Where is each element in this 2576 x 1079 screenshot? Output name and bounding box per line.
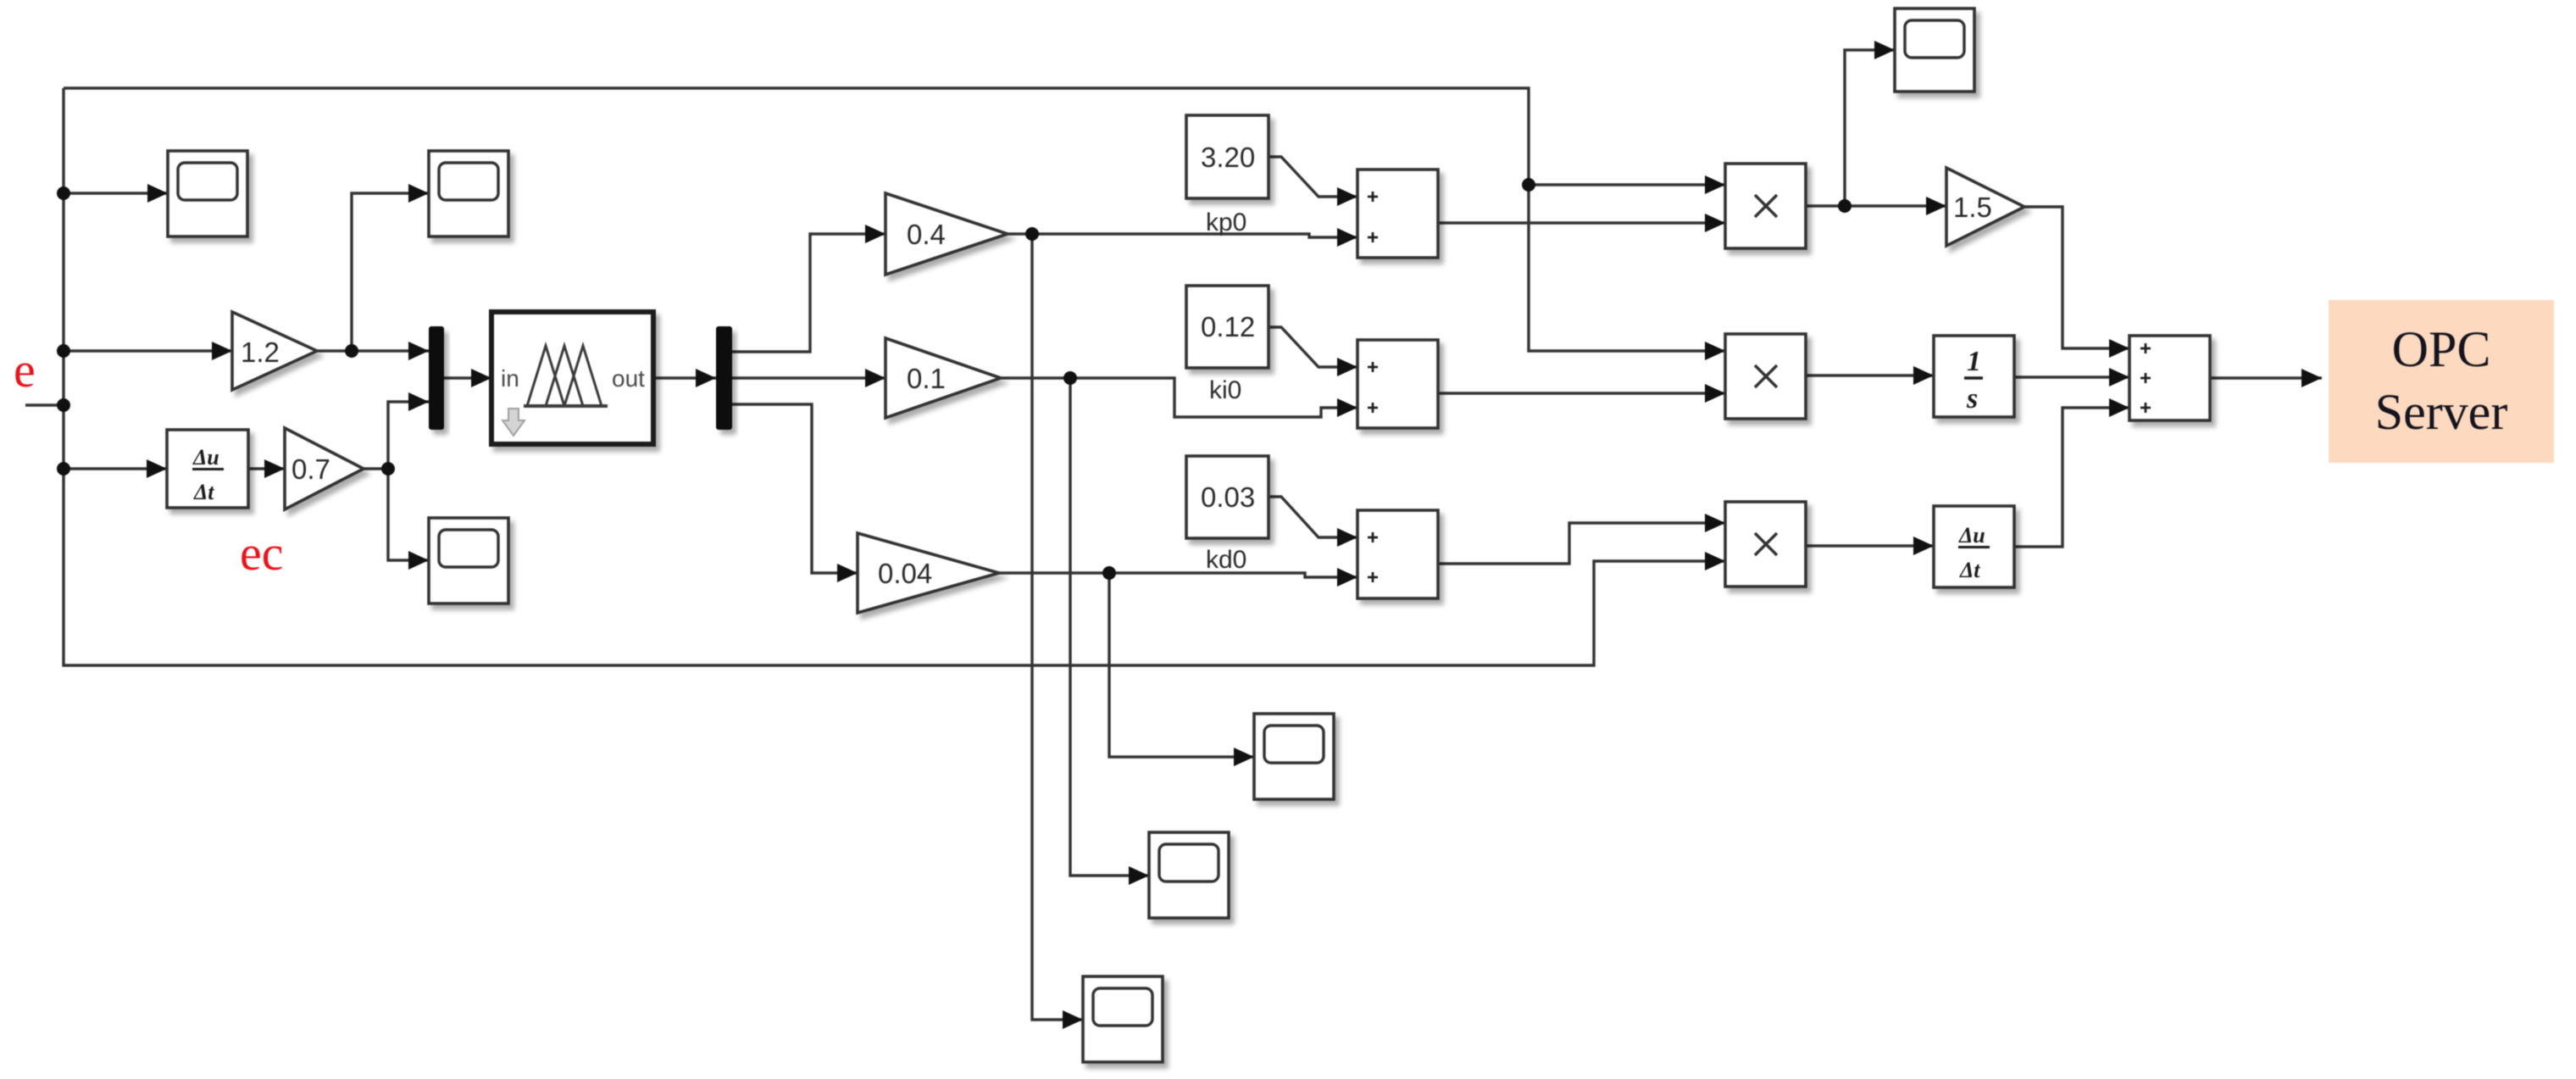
svg-text:0.04: 0.04 [878,558,932,589]
wire product P2 to integrator I1 [1806,374,1934,376]
svg-text:out: out [612,365,645,392]
gain G1 1.2 [232,312,317,390]
gain G5 0.04 [858,533,999,613]
svg-text:Δt: Δt [193,480,214,504]
svg-text:0.1: 0.1 [907,363,946,394]
integrator I1 1/s [1934,336,2014,417]
wire constant ki0 to sum A2 input 1 [1269,327,1357,367]
svg-text:s: s [1966,383,1978,414]
wire e to scope S1 [64,192,168,194]
gain G4 0.1 [885,338,1001,418]
fuzzy logic controller U1 [491,312,653,444]
wire branch to scope S2 [352,193,429,351]
node after gain G2 [381,462,395,476]
node e input [57,398,70,412]
wire main e trunk with bottom feedback to product P3 [64,88,1725,665]
wire product P1 to gain G6 [1806,204,1946,207]
wire product P3 to derivative D2 [1806,544,1934,547]
svg-text:1: 1 [1967,346,1981,377]
wire mux to fuzzy controller [444,376,491,379]
sum A3 [1357,510,1438,598]
product P1 [1725,164,1806,248]
sum A2 [1357,340,1438,428]
node kd line [1102,566,1116,580]
svg-text:1.5: 1.5 [1953,192,1992,223]
scope S4 [1254,714,1334,799]
wire branch to scope S7 [1845,50,1895,206]
wire sum A4 to OPC Server [2210,376,2322,379]
svg-text:kp0: kp0 [1206,209,1246,236]
scope S3 [429,518,508,603]
node ki line [1063,371,1077,385]
svg-text:0.03: 0.03 [1201,481,1255,513]
wire demux out1 to gain G3 [732,234,885,352]
wire e to gain G1 [64,349,232,352]
node after product P1 [1838,199,1851,213]
svg-text:3.20: 3.20 [1201,142,1255,173]
scope S2 [429,151,508,236]
svg-text:Δu: Δu [192,445,219,470]
demux M2 [716,326,732,430]
wire gain G6 to sum A4 input 1 [2024,207,2129,348]
OPC Server block [2329,300,2554,463]
wire branch ki to scope S5 [1070,378,1149,876]
svg-text:OPC: OPC [2392,321,2491,377]
product P2 [1725,334,1806,419]
wire sum A3 to product P3 input 1 [1438,523,1725,564]
svg-text:0.4: 0.4 [907,219,946,250]
svg-text:e: e [14,342,36,398]
wire demux out3 to gain G5 [732,404,858,573]
wire gain G5 to sum A3 input 2 [999,573,1357,577]
wire top feedback e to products row [64,88,1725,351]
constant kd0 0.03 [1186,456,1269,538]
wire derivative D1 to gain G2 [248,467,285,470]
mux M1 [429,326,444,430]
wire branch kp to scope S6 [1032,234,1083,1020]
node e feedback [1522,178,1535,192]
node kp line [1025,227,1039,241]
svg-text:ec: ec [240,526,284,581]
product P3 [1725,502,1806,587]
wire gain G2 to mux input 2 [364,402,429,469]
scope S5 [1149,832,1229,918]
wire constant kd0 to sum A3 input 1 [1269,497,1357,537]
derivative D1 du/dt [167,430,248,508]
svg-text:Server: Server [2375,384,2508,440]
sum A1 [1357,170,1438,258]
wire gain G1 to mux input 1 [317,349,429,352]
constant ki0 0.12 [1186,286,1269,368]
wire constant kp0 to sum A1 input 1 [1269,157,1357,197]
gain G3 0.4 [885,193,1008,275]
wire branch from node to product P1 top input [1529,183,1725,186]
gain G6 1.5 [1946,168,2024,246]
svg-text:0.7: 0.7 [291,453,330,485]
node e to scope branch [57,186,70,200]
wire branch to scope S3 [388,469,429,560]
wire sum A2 to product P2 input 2 [1438,392,1725,394]
node ec branch [57,462,70,476]
wire sum A1 to product P1 input 2 [1438,221,1725,224]
sum A4 [2129,336,2210,420]
scope S6 [1083,976,1163,1062]
wire gain G4 to sum A2 input 2 [1001,378,1357,417]
wire e input stub [25,403,64,406]
wire e to derivative D1 [64,467,167,470]
svg-text:Δt: Δt [1959,558,1980,582]
wire fuzzy controller to demux [653,376,716,379]
wire gain G3 to sum A1 input 2 [1008,234,1357,237]
svg-text:0.12: 0.12 [1201,311,1255,342]
svg-text:kd0: kd0 [1206,546,1246,574]
wire derivative D2 to sum A4 input 3 [2014,408,2129,547]
wire demux out2 to gain G4 [732,376,885,379]
svg-text:in: in [501,365,519,392]
svg-text:ki0: ki0 [1209,376,1241,404]
node after gain G1 [345,344,358,358]
svg-text:Δu: Δu [1958,523,1985,548]
svg-text:1.2: 1.2 [241,336,280,368]
constant kp0 3.20 [1186,115,1269,198]
wire branch kd to scope S4 [1109,573,1254,757]
derivative D2 du/dt [1934,506,2014,587]
scope S1 [168,151,247,236]
gain G2 0.7 [285,428,364,509]
wire integrator I1 to sum A4 input 2 [2014,375,2129,378]
scope S7 top right [1895,8,1974,92]
node e to gain G1 branch [57,344,70,358]
